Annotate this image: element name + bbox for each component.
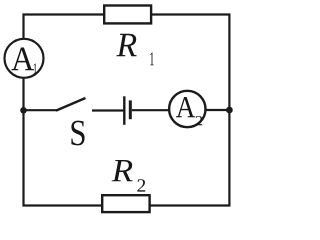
wire switch to battery (92, 109, 123, 111)
node left junction (20, 107, 27, 114)
node right junction (226, 107, 233, 114)
label S (71, 121, 84, 146)
resistor R1 (104, 6, 151, 24)
label R1 (116, 34, 136, 56)
wire A2 to right node (207, 109, 230, 111)
resistor R2 (102, 195, 149, 212)
wire middle branch from left node to switch (24, 109, 57, 111)
switch S blade (56, 98, 86, 111)
wire R1 right to top-right corner down right side to bottom-right and to R2 (150, 15, 229, 206)
label R2 (112, 160, 133, 181)
ammeter A2 (169, 91, 205, 127)
ammeter A1 (5, 39, 44, 78)
wire battery to A2 (132, 109, 169, 111)
wire top-left corner to R1 and down to A1 (24, 15, 105, 39)
battery short plate (129, 100, 132, 119)
battery long plate (123, 96, 125, 125)
wire R2 left to bottom-left corner and up left side to A1 bottom (24, 78, 103, 206)
